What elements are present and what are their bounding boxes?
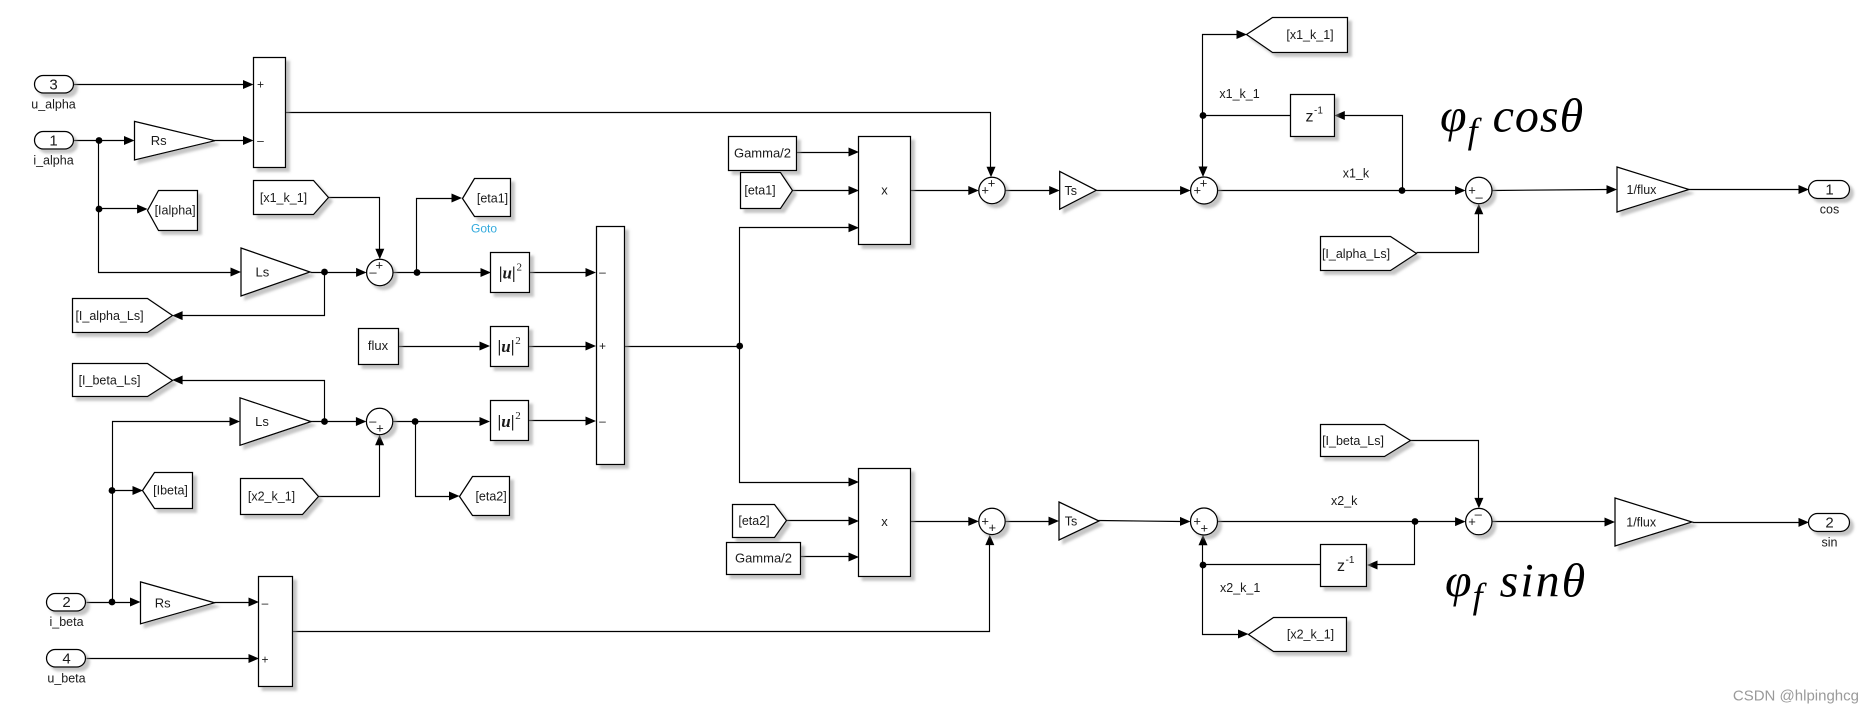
svg-text:4: 4 [62,651,70,668]
svg-text:x2_k_1: x2_k_1 [1220,581,1260,595]
svg-text:i_alpha: i_alpha [33,154,73,168]
svg-text:z: z [1337,558,1345,575]
svg-text:[Ibeta]: [Ibeta] [153,484,188,498]
svg-text:Gamma/2: Gamma/2 [735,551,792,566]
svg-text:z: z [1306,108,1314,125]
svg-text:sin: sin [1822,535,1838,549]
svg-text:flux: flux [368,338,389,353]
svg-text:Ts: Ts [1065,515,1078,529]
svg-text:i_beta: i_beta [49,615,83,629]
svg-text:[eta1]: [eta1] [744,184,775,198]
svg-text:x: x [881,183,888,198]
svg-text:–: – [257,134,264,148]
svg-text:-1: -1 [1346,555,1355,566]
svg-text:x1_k_1: x1_k_1 [1219,87,1259,101]
svg-text:+: + [261,653,268,667]
svg-text:+: + [981,183,989,198]
svg-text:Rs: Rs [155,595,171,610]
svg-text:2: 2 [515,335,521,347]
svg-text:[Ialpha]: [Ialpha] [155,204,196,218]
svg-text:–: – [369,265,377,280]
svg-text:2: 2 [515,410,521,422]
svg-text:+: + [599,339,606,353]
svg-text:[x2_k_1]: [x2_k_1] [248,489,295,503]
svg-text:CSDN @hlpinghcg: CSDN @hlpinghcg [1733,688,1859,705]
svg-text:u_alpha: u_alpha [31,98,76,112]
svg-text:Ts: Ts [1064,184,1077,198]
svg-text:1/flux: 1/flux [1626,516,1657,530]
svg-text:–: – [599,414,606,428]
svg-text:+: + [989,520,997,535]
svg-text:–: – [262,596,269,610]
svg-text:+: + [376,420,384,435]
svg-text:-1: -1 [1314,105,1323,116]
svg-text:u_beta: u_beta [47,672,85,686]
svg-text:–: – [599,265,606,279]
svg-text:3: 3 [49,77,57,94]
svg-text:[x1_k_1]: [x1_k_1] [1286,28,1333,42]
svg-text:+: + [257,78,264,92]
svg-text:Ls: Ls [255,414,269,429]
svg-text:+: + [1194,183,1202,198]
svg-text:[x1_k_1]: [x1_k_1] [260,191,307,205]
svg-text:1: 1 [49,133,57,150]
svg-text:Rs: Rs [151,133,167,148]
svg-text:φf cosθ: φf cosθ [1440,89,1584,151]
svg-text:2: 2 [62,594,70,611]
svg-text:+: + [376,258,384,273]
svg-text:[eta2]: [eta2] [475,489,506,503]
svg-text:–: – [1475,507,1483,522]
svg-text:cos: cos [1820,203,1839,217]
svg-text:2: 2 [516,262,522,274]
svg-text:x1_k: x1_k [1343,167,1370,181]
svg-text:|u|: |u| [498,337,515,356]
svg-text:Ls: Ls [256,265,270,280]
svg-text:+: + [1201,520,1209,535]
svg-text:Gamma/2: Gamma/2 [734,146,791,161]
svg-text:x: x [881,514,888,529]
svg-text:1: 1 [1825,182,1833,199]
svg-text:[x2_k_1]: [x2_k_1] [1287,628,1334,642]
svg-text:[I_beta_Ls]: [I_beta_Ls] [1322,434,1384,448]
svg-text:Goto: Goto [471,222,497,236]
svg-text:x2_k: x2_k [1331,494,1358,508]
svg-text:–: – [1475,189,1483,204]
svg-text:1/flux: 1/flux [1627,183,1658,197]
svg-text:[I_beta_Ls]: [I_beta_Ls] [79,373,141,387]
svg-text:[eta2]: [eta2] [738,514,769,528]
svg-text:[eta1]: [eta1] [477,191,508,205]
svg-text:|u|: |u| [498,412,515,431]
svg-text:[I_alpha_Ls]: [I_alpha_Ls] [75,309,143,323]
svg-text:2: 2 [1825,514,1833,531]
svg-text:|u|: |u| [499,264,516,283]
svg-text:φf sinθ: φf sinθ [1445,555,1587,617]
svg-text:[I_alpha_Ls]: [I_alpha_Ls] [1322,247,1390,261]
